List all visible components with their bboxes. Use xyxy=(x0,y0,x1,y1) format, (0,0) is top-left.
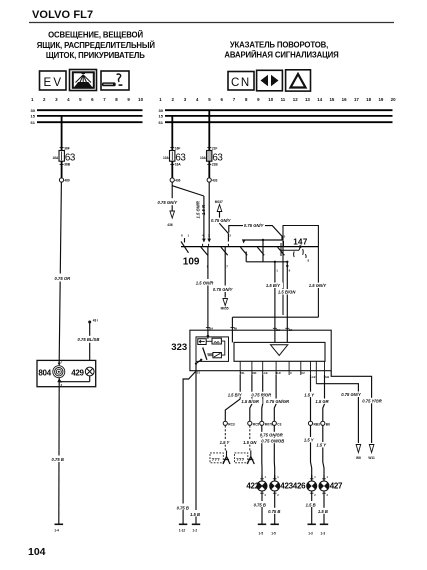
svg-text:433: 433 xyxy=(212,179,218,183)
svg-text:0.75 BL/SB: 0.75 BL/SB xyxy=(78,337,100,342)
svg-text:14: 14 xyxy=(317,97,322,102)
svg-text:489: 489 xyxy=(64,179,70,183)
svg-text:427: 427 xyxy=(330,482,343,491)
svg-text:ЩИТОК, ПРИКУРИВАТЕЛЬ: ЩИТОК, ПРИКУРИВАТЕЛЬ xyxy=(46,51,145,60)
svg-text:323: 323 xyxy=(171,342,187,353)
svg-text:436: 436 xyxy=(175,179,181,183)
svg-text:1-3: 1-3 xyxy=(321,532,326,536)
svg-text:0.75 GN/GR: 0.75 GN/GR xyxy=(266,399,289,404)
svg-text:VOLVO FL7: VOLVO FL7 xyxy=(32,9,93,21)
svg-text:11: 11 xyxy=(281,97,286,102)
svg-text:0.75 B: 0.75 B xyxy=(254,502,266,507)
svg-text:43 i: 43 i xyxy=(93,319,98,323)
svg-text:0.75 B: 0.75 B xyxy=(52,457,64,462)
svg-text:436: 436 xyxy=(167,223,173,227)
svg-text:0.75 B: 0.75 B xyxy=(268,509,280,514)
svg-text:1.5 B: 1.5 B xyxy=(190,512,200,517)
svg-text:C3: C3 xyxy=(277,422,281,426)
svg-text:1.5 Y: 1.5 Y xyxy=(316,443,327,448)
svg-text:0.75 OR: 0.75 OR xyxy=(55,276,71,281)
svg-text:1.5 B/GR: 1.5 B/GR xyxy=(241,399,258,404)
svg-text:RB3: RB3 xyxy=(314,422,321,426)
svg-text:B4: B4 xyxy=(289,328,293,332)
svg-text:0.75 GN/Y: 0.75 GN/Y xyxy=(244,223,265,228)
svg-text:RC5: RC5 xyxy=(253,422,260,426)
svg-text:147: 147 xyxy=(293,237,308,246)
svg-text:???: ??? xyxy=(236,457,244,462)
svg-text:426: 426 xyxy=(293,482,306,491)
svg-text:1.5 B/Y: 1.5 B/Y xyxy=(266,283,281,288)
svg-text:36F: 36F xyxy=(64,147,70,151)
svg-text:EV: EV xyxy=(44,77,64,89)
svg-text:???: ??? xyxy=(212,457,220,462)
svg-text:16F: 16F xyxy=(175,147,181,151)
svg-text:1.5 Y: 1.5 Y xyxy=(220,440,231,445)
svg-text:31: 31 xyxy=(197,371,201,375)
svg-text:1.5 GN: 1.5 GN xyxy=(243,440,257,445)
svg-text:1.5 B/Y: 1.5 B/Y xyxy=(228,392,243,397)
svg-text:54R: 54R xyxy=(252,371,257,375)
svg-text:18: 18 xyxy=(366,97,371,102)
svg-text:1.5 B: 1.5 B xyxy=(306,502,316,507)
svg-text:21B: 21B xyxy=(212,163,219,167)
svg-text:54L: 54L xyxy=(240,371,245,375)
svg-text:1-5: 1-5 xyxy=(271,532,276,536)
svg-text:W11: W11 xyxy=(368,456,375,460)
svg-text:1-4: 1-4 xyxy=(54,529,59,533)
svg-text:УКАЗАТЕЛЬ ПОВОРОТОВ,: УКАЗАТЕЛЬ ПОВОРОТОВ, xyxy=(230,40,328,49)
svg-text:10A: 10A xyxy=(200,156,207,160)
svg-text:0.75 GN/Y: 0.75 GN/Y xyxy=(211,218,232,223)
svg-text:19: 19 xyxy=(378,97,383,102)
svg-text:0.75 B: 0.75 B xyxy=(177,505,189,510)
svg-text:0.75 R/GR: 0.75 R/GR xyxy=(251,392,271,397)
svg-text:RC3: RC3 xyxy=(228,422,235,426)
svg-text:0.75 GN/GR: 0.75 GN/GR xyxy=(260,432,283,437)
svg-text:0.75 GN/Y: 0.75 GN/Y xyxy=(213,287,234,292)
svg-text:ОСВЕЩЕНИЕ, ВЕЩЕВОЙ: ОСВЕЩЕНИЕ, ВЕЩЕВОЙ xyxy=(48,31,143,40)
svg-text:B6: B6 xyxy=(326,422,330,426)
svg-text:20: 20 xyxy=(391,97,396,102)
svg-text:M055: M055 xyxy=(221,307,229,311)
svg-text:0.75 GN/Y: 0.75 GN/Y xyxy=(158,200,179,205)
svg-text:0.75 GN/Y: 0.75 GN/Y xyxy=(341,392,362,397)
svg-text:109: 109 xyxy=(183,257,200,268)
svg-text:104: 104 xyxy=(28,546,46,558)
svg-text:10: 10 xyxy=(138,97,143,102)
svg-text:30: 30 xyxy=(159,108,164,113)
svg-text:1.5 GN/R: 1.5 GN/R xyxy=(196,201,201,218)
svg-text:1-12: 1-12 xyxy=(179,528,186,532)
svg-text:LLB: LLB xyxy=(262,371,267,375)
svg-text:W8: W8 xyxy=(356,456,361,460)
svg-text:61: 61 xyxy=(159,120,164,125)
svg-text:1-3: 1-3 xyxy=(308,532,313,536)
svg-text:804: 804 xyxy=(38,369,51,378)
svg-text:16A: 16A xyxy=(175,163,182,167)
svg-text:17: 17 xyxy=(354,97,359,102)
svg-text:49: 49 xyxy=(234,326,238,330)
svg-text:1.5 GR: 1.5 GR xyxy=(315,399,328,404)
svg-text:M037: M037 xyxy=(215,200,223,204)
svg-text:1-5: 1-5 xyxy=(259,532,264,536)
svg-text:15: 15 xyxy=(329,97,334,102)
svg-text:21F: 21F xyxy=(212,147,218,151)
svg-text:1.5 B/GN: 1.5 B/GN xyxy=(278,290,296,295)
svg-text:12: 12 xyxy=(293,97,298,102)
svg-text:CN: CN xyxy=(231,77,251,89)
svg-text:1.5 B: 1.5 B xyxy=(318,509,328,514)
svg-text:1-2: 1-2 xyxy=(193,528,198,532)
svg-text:15: 15 xyxy=(159,114,164,119)
svg-text:10: 10 xyxy=(268,97,273,102)
svg-text:0.75 Y/GR: 0.75 Y/GR xyxy=(362,399,381,404)
svg-text:C: C xyxy=(290,371,292,375)
svg-text:ЯЩИК, РАСПРЕДЕЛИТЕЛЬНЫЙ: ЯЩИК, РАСПРЕДЕЛИТЕЛЬНЫЙ xyxy=(37,41,156,50)
svg-text:36B: 36B xyxy=(64,163,71,167)
svg-text:423: 423 xyxy=(280,482,293,491)
svg-text:B1: B1 xyxy=(276,328,280,332)
svg-text:RLR: RLR xyxy=(275,371,280,375)
svg-text:1.5 Y: 1.5 Y xyxy=(304,438,315,443)
svg-text:61: 61 xyxy=(31,120,36,125)
svg-text:429: 429 xyxy=(71,369,84,378)
svg-text:1.5 GN/Y: 1.5 GN/Y xyxy=(309,283,327,288)
svg-text:АВАРИЙНАЯ СИГНАЛИЗАЦИЯ: АВАРИЙНАЯ СИГНАЛИЗАЦИЯ xyxy=(224,51,339,60)
svg-text:C2: C2 xyxy=(301,371,305,375)
svg-text:30: 30 xyxy=(31,108,36,113)
svg-text:0.75 GN/GB: 0.75 GN/GB xyxy=(261,438,284,443)
svg-text:1.5 GN/R: 1.5 GN/R xyxy=(196,280,213,285)
svg-text:16: 16 xyxy=(342,97,347,102)
svg-text:15: 15 xyxy=(31,114,36,119)
svg-text:B4: B4 xyxy=(209,326,213,330)
svg-text:LLB: LLB xyxy=(310,375,315,379)
svg-text:1.5 Y: 1.5 Y xyxy=(304,392,315,397)
svg-text:10A: 10A xyxy=(163,156,170,160)
svg-text:16A: 16A xyxy=(52,156,59,160)
svg-text:13: 13 xyxy=(305,97,310,102)
